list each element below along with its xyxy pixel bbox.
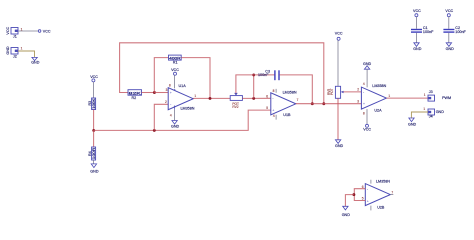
svg-text:1: 1 (21, 47, 23, 51)
svg-text:3: 3 (166, 88, 168, 92)
ground at U2B (342, 206, 351, 217)
wire C3 right down to U1B output (280, 75, 313, 104)
svg-text:LM358N: LM358N (283, 91, 297, 95)
junction C3 on U1B output (311, 102, 314, 105)
op-amp U2B (362, 179, 394, 210)
svg-text:GND: GND (413, 47, 422, 51)
svg-text:GND: GND (90, 170, 99, 174)
wire U1A output (193, 97, 230, 99)
VCC symbol at J1 (38, 30, 51, 34)
wire node C up to C3 net (253, 75, 255, 99)
wire U2A output to J3 (386, 97, 428, 99)
svg-text:100nF: 100nF (423, 30, 434, 34)
wire RV5 wiper to U2A pin 2 (344, 91, 362, 93)
svg-text:VCC: VCC (171, 68, 179, 72)
wire U1A pin 2 (154, 104, 168, 130)
svg-text:LM358N: LM358N (372, 84, 386, 88)
ground below R4 (90, 164, 99, 174)
node B junction at U1A pin3 (153, 91, 156, 94)
wire RV2 to junction C (242, 97, 270, 99)
svg-text:1: 1 (423, 107, 425, 111)
svg-text:3: 3 (357, 100, 359, 104)
resistor R2 (128, 90, 142, 100)
svg-text:1: 1 (194, 94, 196, 98)
svg-text:R2: R2 (132, 96, 137, 100)
connector J3 (424, 90, 451, 101)
svg-text:8: 8 (363, 111, 365, 115)
svg-text:7: 7 (297, 98, 299, 102)
svg-text:GND: GND (6, 46, 10, 55)
VCC symbol above RV5 (335, 31, 343, 86)
svg-text:82K: 82K (129, 92, 143, 96)
svg-text:6: 6 (266, 94, 268, 98)
svg-text:RV2: RV2 (232, 105, 238, 109)
R1 feedback loop wire right (181, 58, 210, 99)
ground at J2 (31, 57, 40, 64)
U2B output stub (390, 194, 393, 196)
svg-text:J4: J4 (429, 115, 433, 119)
svg-text:U1A: U1A (179, 84, 187, 88)
connector J1 (6, 26, 18, 38)
VCC symbol above U1A (171, 68, 179, 89)
ground below RV5 (335, 140, 344, 148)
node A junction (92, 129, 95, 132)
svg-text:J2: J2 (13, 55, 17, 59)
svg-text:8: 8 (273, 89, 275, 93)
svg-text:5: 5 (266, 106, 268, 110)
wire U1B output to U2A pin 3 (296, 103, 362, 105)
potentiometer RV5 (327, 86, 344, 98)
wire R4 to ground (93, 160, 95, 164)
capacitor C2 (443, 17, 466, 43)
VCC symbol above R3 (90, 75, 98, 82)
svg-text:VCC: VCC (363, 128, 371, 132)
svg-text:GND: GND (342, 213, 351, 217)
wire J4 to ground (411, 112, 428, 118)
svg-text:VCC: VCC (6, 26, 10, 34)
svg-text:VCC: VCC (43, 30, 51, 34)
svg-text:U1B: U1B (283, 113, 291, 117)
svg-text:7: 7 (391, 190, 393, 194)
wire R3 to node A (93, 110, 95, 131)
wire U2B tie to ground (345, 195, 354, 207)
wire R2 to node B (142, 92, 155, 94)
svg-text:U2B: U2B (377, 206, 385, 210)
svg-text:VCC: VCC (413, 9, 421, 13)
capacitor C1 (411, 17, 434, 43)
junction pin2 net on bottom wire (153, 129, 156, 132)
node C junction (252, 97, 255, 100)
svg-text:GND: GND (31, 61, 40, 65)
svg-text:100nF: 100nF (258, 73, 269, 77)
svg-text:GND: GND (408, 123, 417, 127)
svg-text:100K: 100K (92, 98, 96, 109)
svg-text:LM358N: LM358N (376, 179, 390, 183)
wire tying U2B inputs (354, 189, 365, 201)
svg-text:GND: GND (171, 125, 180, 129)
connector J2 (6, 46, 18, 59)
svg-text:PWM: PWM (442, 96, 451, 100)
wire node A to U1B pin 5 (94, 110, 271, 130)
svg-text:VCC: VCC (335, 31, 343, 35)
junction R1 loop on output (209, 97, 212, 100)
ground above U2A (flipped) (363, 62, 372, 88)
ground below U1A (171, 121, 180, 129)
wire C3 left / to RV2 wiper (236, 75, 275, 93)
svg-text:100R: 100R (92, 147, 96, 159)
top feedback wire (120, 43, 324, 104)
potentiometer RV2 (230, 93, 242, 109)
svg-text:100nF: 100nF (455, 30, 466, 34)
svg-text:1: 1 (388, 94, 390, 98)
svg-text:GND: GND (363, 62, 372, 66)
VCC symbol above C1 (413, 9, 421, 17)
op-amp U2A (357, 82, 390, 115)
svg-text:R1: R1 (173, 60, 178, 64)
wire VCC to R3 (93, 82, 95, 98)
svg-text:4: 4 (170, 113, 172, 117)
wire J1 to VCC (18, 30, 38, 32)
svg-text:POT: POT (330, 88, 334, 95)
ground at J4 (408, 118, 417, 127)
svg-text:LM358N: LM358N (181, 106, 195, 110)
svg-text:4: 4 (273, 114, 275, 118)
op-amp U1A (165, 84, 196, 118)
svg-text:J3: J3 (429, 90, 433, 94)
GND pin wire below U1A (174, 110, 176, 121)
wire node B to U1A pin 3 (154, 92, 168, 94)
svg-text:GND: GND (335, 144, 344, 148)
connector J4 (423, 107, 444, 118)
resistor R4 (88, 130, 96, 160)
svg-text:U2A: U2A (374, 108, 382, 112)
resistor R3 (88, 98, 96, 110)
svg-text:1: 1 (424, 93, 426, 97)
junction feedback on U1B output (322, 102, 325, 105)
resistor R1 (169, 55, 182, 64)
wire RV5 bottom to ground (337, 98, 339, 139)
junction on C3 wire (252, 73, 255, 76)
svg-text:4: 4 (363, 82, 365, 86)
svg-text:2: 2 (165, 100, 167, 104)
ground below C2 (446, 43, 455, 51)
svg-text:VCC: VCC (445, 9, 453, 13)
junction U2B tie (352, 193, 355, 196)
capacitor C3 (258, 69, 279, 80)
VCC pin wire below U2A (366, 109, 368, 124)
svg-text:J1: J1 (13, 35, 17, 39)
wire J2 to GND (18, 51, 35, 57)
op-amp U1B (266, 89, 298, 120)
svg-text:VCC: VCC (90, 75, 98, 79)
R1 feedback loop wire left (154, 58, 168, 93)
svg-text:GND: GND (446, 47, 455, 51)
ground below C1 (413, 43, 422, 51)
svg-text:2: 2 (357, 87, 359, 91)
svg-text:GND: GND (436, 110, 445, 114)
VCC symbol above C2 (445, 9, 453, 17)
svg-text:8: 8 (169, 84, 171, 88)
VCC symbol below U2A (363, 124, 371, 131)
